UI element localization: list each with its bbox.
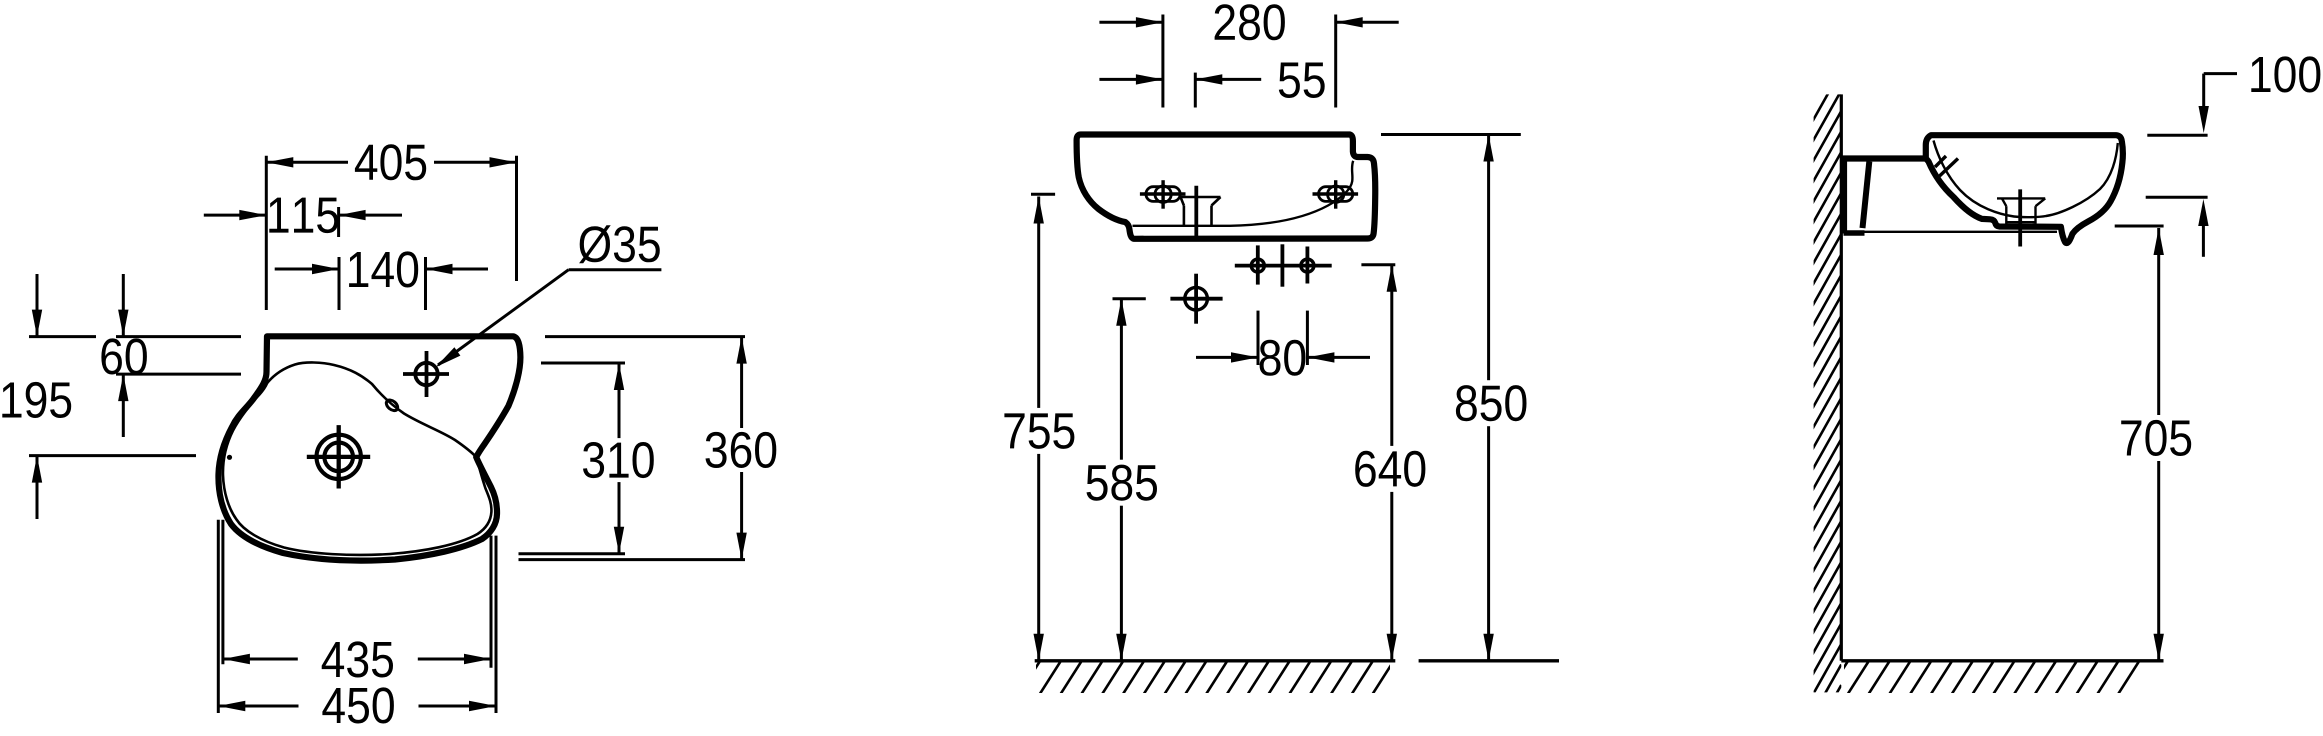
- reference tick 585: [1113, 297, 1146, 300]
- reference tick 755: [1031, 193, 1055, 196]
- dimension 755: [996, 197, 1082, 661]
- siphon hole symbol: [1170, 274, 1222, 324]
- dimension 140: [275, 251, 488, 310]
- ground hatching front view: [1019, 661, 1414, 694]
- dimension 640: [1347, 265, 1433, 661]
- front-view basin outline: [1077, 135, 1376, 239]
- dimension 850: [1448, 135, 1534, 661]
- reference line rim bottom: [2146, 196, 2208, 199]
- dimension 115: [204, 198, 402, 237]
- reference line 850 top: [1381, 133, 1521, 136]
- wall bracket foot: [1844, 230, 1865, 236]
- front-view inner bottom line: [1133, 161, 1354, 226]
- label O35 leader: [436, 270, 662, 368]
- tap hole symbol: [403, 351, 449, 397]
- dimension 435: [223, 520, 491, 682]
- dimension 55: [1099, 63, 1324, 108]
- front-view drain trap: [1180, 186, 1221, 237]
- dimension 705: [2113, 228, 2199, 661]
- dimension 280: [1099, 4, 1398, 107]
- dimension 195: [2, 274, 196, 519]
- wall bracket upright: [1841, 156, 1847, 234]
- waste hole left: [1251, 245, 1264, 284]
- side-view inner bowl line: [1934, 141, 2118, 218]
- bracket bottom line: [1864, 231, 2057, 233]
- side-view bowl outline: [1926, 135, 2123, 243]
- ground line side view: [1841, 659, 2163, 662]
- wall bracket leg: [1863, 162, 1870, 229]
- dimension 60: [101, 274, 241, 437]
- ground line front view: [1035, 659, 1396, 662]
- drain hole symbol: [307, 425, 370, 488]
- left fixing bolt: [1140, 180, 1186, 209]
- reference line rim top: [2147, 134, 2207, 137]
- overflow hole: [384, 398, 399, 413]
- outline junction dot: [227, 455, 232, 460]
- ground hatching side view: [1827, 661, 2139, 694]
- dimension 100: [2198, 56, 2320, 256]
- dimension 585: [1079, 299, 1165, 661]
- wall bracket bar: [1841, 155, 1926, 161]
- dimension 360: [519, 337, 782, 560]
- top-view basin inner rim loop: [223, 362, 491, 554]
- wall hatching: [1791, 70, 1841, 736]
- waste hole right: [1301, 247, 1314, 284]
- reference tick 640: [1361, 263, 1395, 266]
- waste holes line: [1235, 264, 1332, 268]
- dimension 450: [218, 520, 496, 728]
- tap mark ticks: [1935, 156, 1946, 167]
- side-view drain trap: [1997, 189, 2045, 246]
- right fixing bolt: [1313, 180, 1359, 209]
- top-view basin outline: [218, 336, 520, 560]
- wall line: [1840, 94, 1843, 660]
- dimension 405: [266, 141, 516, 310]
- dimension 80: [1196, 311, 1370, 376]
- dimension 310: [519, 363, 660, 554]
- reference line basin underside: [2115, 225, 2164, 228]
- label O35 text: [579, 225, 660, 263]
- waste hole centre tick: [1281, 244, 1285, 286]
